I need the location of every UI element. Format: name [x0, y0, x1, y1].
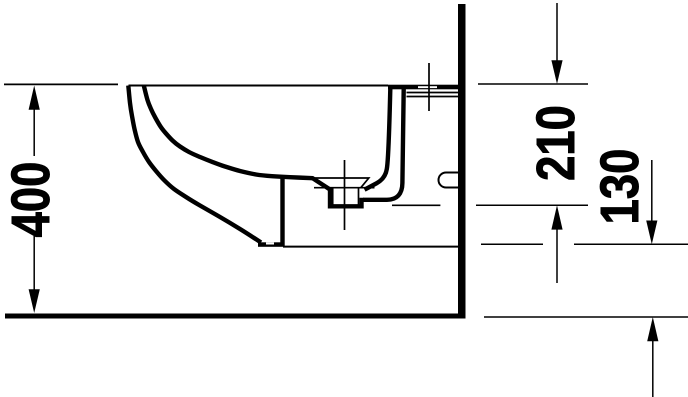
inner basin curve: [144, 86, 313, 179]
svg-text:210: 210: [525, 105, 586, 181]
bidet bottom thick band: [258, 242, 284, 247]
svg-text:130: 130: [589, 149, 650, 225]
bidet outer profile: [128, 86, 261, 243]
dim 130 tick top left segment: [481, 243, 543, 245]
dim 400 line upper: [33, 98, 35, 156]
dim 210 tick bottom / outlet line outside: [476, 204, 588, 206]
drain funnel left slope: [312, 178, 330, 190]
bidet top rim thick band near wall: [388, 85, 458, 90]
dim 400 extension line top: [4, 83, 118, 85]
rim detail line lower: [407, 96, 459, 98]
dim 130 line lower: [652, 341, 654, 397]
ceramic joint notch: [266, 242, 274, 244]
dim 210 arrow up: [551, 205, 562, 229]
drain inner wall right: [358, 189, 360, 206]
mounting slot: [439, 173, 458, 188]
dim 130 tick bottom (floor level): [484, 316, 688, 318]
drain crosshair vertical: [344, 160, 346, 230]
drain crosshair horizontal: [314, 187, 375, 189]
trap pipe left wall: [365, 89, 391, 190]
dim 400 arrow down: [29, 289, 40, 313]
drain inner wall left: [332, 189, 334, 206]
bidet back vertical edge: [280, 176, 284, 246]
bidet bottom thin line to wall: [283, 246, 458, 248]
dim 210 line lower: [556, 229, 558, 283]
basin surface thin line to drain: [305, 178, 369, 188]
drain box outline: [330, 188, 362, 207]
inlet centerline crosshair: [428, 63, 430, 111]
svg-text:400: 400: [0, 162, 61, 238]
dim 400 arrow up: [29, 86, 40, 110]
dim 210 tick top: [478, 83, 588, 85]
water inlet slot: [418, 86, 437, 88]
dim 400 line lower: [33, 236, 35, 305]
dim 210 arrow down: [551, 60, 562, 84]
dim 130 line upper: [651, 160, 653, 221]
dim 130 tick top right segment: [574, 243, 688, 245]
dim 130 arrow down: [646, 221, 657, 245]
dim 210 line upper: [556, 3, 558, 62]
floor: [5, 314, 466, 319]
dim 130 arrow up: [647, 317, 658, 341]
trap pipe right wall: [363, 89, 404, 200]
outlet centerline inside: [392, 204, 440, 206]
bidet top rim line: [129, 85, 389, 87]
wall: [458, 4, 466, 319]
rim detail line upper: [407, 92, 459, 94]
